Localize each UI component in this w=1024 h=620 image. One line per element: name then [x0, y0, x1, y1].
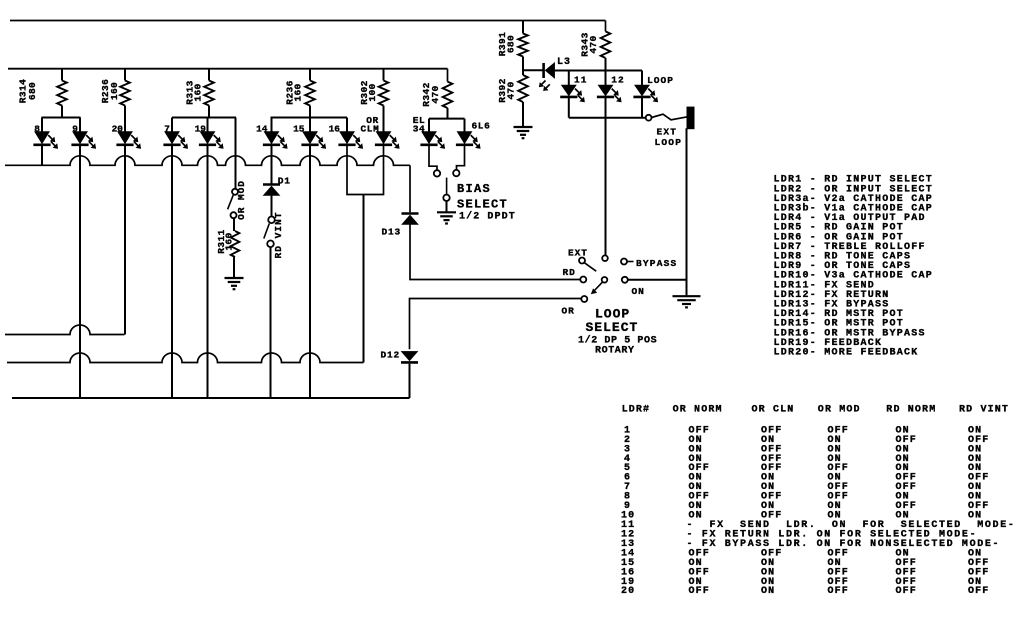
wire LDR16 / OR CLM join — [347, 146, 384, 363]
LED EL 34 — [413, 115, 445, 149]
svg-text:OFF: OFF — [968, 586, 989, 597]
jack EXT LOOP — [688, 108, 694, 129]
svg-text:OR NORM: OR NORM — [673, 405, 723, 416]
wire RD VINT drop — [270, 247, 272, 398]
wire I-row top rail — [555, 70, 642, 72]
svg-text:14: 14 — [256, 124, 268, 135]
wire bus to D13 — [409, 165, 411, 212]
svg-text:EXT: EXT — [568, 248, 588, 259]
wire 6L6 to switch throw — [457, 146, 465, 170]
svg-text:RD NORM: RD NORM — [886, 405, 936, 416]
wire rail LDR14/15/16 — [271, 106, 348, 118]
svg-text:ON: ON — [632, 286, 645, 297]
wire LDR15 drop — [309, 146, 311, 398]
LED LDR19 — [195, 118, 224, 149]
LED LDR9 — [71, 118, 95, 149]
wire bus B — [7, 353, 364, 363]
svg-text:680: 680 — [505, 35, 516, 53]
svg-text:OR MOD: OR MOD — [818, 405, 861, 416]
wire to jack — [652, 114, 688, 120]
wire LDR7 drop — [171, 146, 173, 398]
svg-text:RD: RD — [563, 267, 576, 278]
svg-text:LOOP: LOOP — [647, 75, 674, 86]
wire LDR19 drop — [207, 146, 209, 398]
LED 11 — [560, 71, 587, 102]
svg-text:OFF: OFF — [896, 586, 917, 597]
wire bus C — [12, 397, 410, 399]
svg-text:15: 15 — [293, 124, 305, 135]
svg-text:SELECT: SELECT — [586, 320, 639, 335]
LED L3 — [523, 57, 571, 91]
svg-text:160: 160 — [192, 83, 203, 101]
switch BIAS SELECT — [434, 170, 460, 201]
LED LOOP — [633, 71, 674, 102]
wire LDR9 drop — [79, 146, 81, 398]
svg-text:6L6: 6L6 — [472, 120, 491, 131]
svg-text:20: 20 — [621, 586, 635, 597]
svg-text:20: 20 — [112, 124, 124, 135]
LED LDR16 — [329, 118, 363, 149]
resistor R342 470 — [421, 69, 452, 119]
resistor R313 160 — [185, 69, 214, 106]
svg-text:OFF: OFF — [828, 586, 849, 597]
svg-text:BYPASS: BYPASS — [636, 258, 677, 269]
wire ON contact to ground — [628, 279, 687, 281]
label EXT LOOP — [655, 127, 683, 149]
wire rail to OR MOD switch — [235, 118, 237, 189]
diode D13 — [381, 214, 418, 238]
svg-text:ROTARY: ROTARY — [595, 346, 635, 357]
svg-text:100: 100 — [367, 83, 378, 101]
wire rail EL34/6L6 — [429, 118, 465, 120]
wire jack to ground — [686, 128, 688, 296]
svg-text:LDR#: LDR# — [622, 405, 651, 416]
wire D12 to bottom bus — [409, 364, 411, 398]
wire second feed bus — [8, 68, 448, 70]
label BIAS SELECT — [457, 182, 516, 223]
wire D1 to RD VINT switch — [271, 196, 273, 217]
wire LDR14 to D1 — [271, 146, 273, 185]
resistor R311 160 — [216, 218, 240, 277]
ground at R392 — [514, 127, 533, 138]
svg-text:RD VINT: RD VINT — [273, 212, 284, 259]
label EXT — [568, 248, 588, 259]
resistor R236 160 — [100, 69, 130, 106]
resistor R302 100 — [359, 69, 388, 106]
svg-text:470: 470 — [430, 85, 441, 103]
wire LDR20 drop — [124, 146, 126, 335]
LED LDR8 — [33, 118, 57, 149]
wire rail LDR7/LDR19 — [172, 106, 236, 118]
ground at BIAS SELECT — [437, 212, 456, 223]
ground at R311 — [225, 278, 244, 289]
svg-text:19: 19 — [195, 124, 207, 135]
diode D1 — [263, 176, 291, 196]
svg-text:160: 160 — [109, 82, 120, 100]
resistor R391 680 — [497, 21, 528, 71]
svg-text:470: 470 — [588, 35, 599, 53]
wire EL34 to switch throw — [429, 146, 437, 170]
label RD — [563, 267, 576, 278]
ground at LOOP SELECT — [673, 296, 701, 307]
node EXT LOOP contact — [646, 115, 652, 121]
svg-text:1/2 DPDT: 1/2 DPDT — [459, 211, 516, 223]
label OR — [562, 306, 575, 317]
switch RD VINT — [264, 212, 284, 259]
svg-text:16: 16 — [329, 124, 341, 135]
text LDR mode table — [621, 405, 1016, 598]
wire switch pole to ground — [446, 201, 448, 212]
wire R236 to LDR20 — [124, 106, 126, 118]
diode D12 — [380, 350, 418, 363]
svg-text:RD VINT: RD VINT — [959, 405, 1009, 416]
svg-text:D12: D12 — [380, 350, 400, 361]
svg-text:LDR20- MORE FEEDBACK: LDR20- MORE FEEDBACK — [774, 348, 919, 359]
wire I-row bottom rail — [569, 97, 646, 118]
svg-text:9: 9 — [72, 124, 78, 135]
svg-text:OR CLN: OR CLN — [752, 405, 795, 416]
LED LDR7 — [163, 118, 187, 149]
wire rail LDR8/LDR9 — [42, 106, 81, 118]
svg-text:D1: D1 — [278, 176, 291, 187]
svg-text:LOOP: LOOP — [655, 137, 683, 148]
svg-text:D13: D13 — [381, 227, 401, 238]
LED LDR14 — [256, 118, 287, 149]
svg-text:BIAS: BIAS — [457, 182, 491, 196]
svg-text:ON: ON — [761, 586, 775, 597]
switch OR MOD — [228, 180, 247, 220]
svg-text:L3: L3 — [557, 57, 571, 68]
svg-text:34: 34 — [413, 123, 426, 134]
svg-text:470: 470 — [505, 81, 516, 99]
wire LDR8 drop — [41, 146, 43, 165]
LED 6L6 — [456, 119, 491, 149]
svg-text:OR MOD: OR MOD — [236, 180, 247, 220]
wire D13 to RD contact — [410, 225, 580, 280]
switch LOOP SELECT — [579, 255, 634, 302]
svg-text:8: 8 — [34, 124, 40, 135]
svg-text:CLM: CLM — [360, 124, 379, 135]
text LDR function list — [774, 175, 934, 359]
svg-text:12: 12 — [611, 74, 624, 85]
LED LDR20 — [112, 118, 141, 149]
label LOOP SELECT — [578, 307, 657, 357]
label ON — [632, 286, 645, 297]
svg-text:160: 160 — [292, 83, 303, 101]
resistor R236 160 — [285, 69, 315, 106]
wire rail to switch top contact — [605, 118, 607, 256]
svg-text:OR: OR — [562, 306, 575, 317]
LED OR CLM — [360, 106, 399, 149]
svg-text:OFF: OFF — [689, 586, 710, 597]
svg-text:11: 11 — [574, 75, 587, 86]
LED LDR15 — [293, 118, 326, 149]
svg-text:160: 160 — [223, 232, 234, 250]
resistor R314 680 — [18, 69, 67, 106]
wire LED bottom bus — [5, 156, 410, 166]
resistor R392 470 — [497, 70, 528, 127]
wire top feed bus — [10, 20, 606, 22]
svg-text:7: 7 — [164, 124, 170, 135]
svg-text:680: 680 — [27, 82, 38, 100]
resistor R343 470 — [580, 21, 611, 71]
svg-text:SELECT: SELECT — [457, 198, 508, 212]
wire OR contact to D12 — [410, 299, 582, 350]
wire bus A — [5, 325, 125, 335]
svg-text:EXT: EXT — [657, 127, 678, 138]
label BYPASS — [636, 258, 677, 269]
LED 12 — [597, 71, 625, 102]
